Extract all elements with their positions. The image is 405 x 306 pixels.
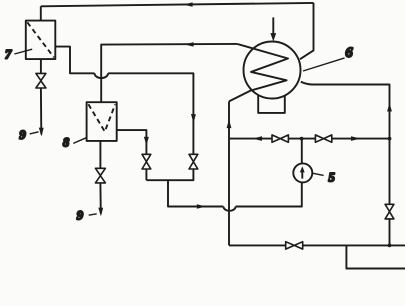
wire top return line (41, 3, 314, 6)
valve V2 (315, 135, 331, 142)
valve V1 (272, 135, 288, 142)
leader line of label 8 (73, 137, 87, 143)
leader line of left label 9 (30, 132, 39, 134)
arrow up on left vertical (227, 119, 232, 128)
pump 5 circle (293, 163, 312, 182)
wire box7 right outlet, down, right to valve M1 drop (55, 47, 94, 74)
valve below box 8 (95, 168, 105, 183)
svg-text:9: 9 (19, 127, 26, 142)
arrow down to 9 (right) (98, 208, 103, 217)
wire bottom step down and out right (346, 245, 405, 268)
wire bottom line y=245.4 (229, 244, 405, 246)
pump inner arrow (301, 172, 303, 179)
wire valve to outlet arrow 9 (40, 88, 42, 134)
inlet arrow line into exchanger top (272, 17, 274, 34)
wire pump top riser to valve line (301, 139, 303, 164)
wire left vertical from exchanger to bottom line (228, 101, 230, 245)
arrow on top line pointing left (183, 2, 193, 6)
valve M2 (142, 154, 151, 169)
wire collector drop at x=168 to y=206 run (168, 180, 223, 206)
valve below box 7 (36, 73, 46, 88)
svg-text:7: 7 (5, 47, 12, 62)
leader line of label 6 (303, 58, 345, 71)
wire hop over vertical at x=229.5 (223, 207, 235, 211)
wire box7 bottom to valve (40, 59, 42, 73)
arrow on y44 line pointing left (184, 42, 194, 46)
dashed diagonal of box 7 (27, 22, 54, 57)
arrow right on y206 run (197, 204, 206, 209)
wire box8 right outlet to valve M2 drop (117, 130, 147, 154)
arrow down to 9 (left) (39, 128, 44, 137)
valve V4 on right vertical (385, 204, 394, 219)
heat exchanger 6 circle (244, 42, 301, 99)
junction dot pump riser (300, 137, 304, 141)
arrow up on right vertical (387, 103, 392, 112)
wire box8 bottom to valve (99, 141, 101, 168)
arrow down on M1 drop (191, 114, 196, 123)
svg-text:5: 5 (328, 169, 335, 184)
wire M1 valve to collector line (146, 169, 193, 180)
svg-text:8: 8 (63, 135, 70, 150)
wire recirculation valve line y=138.6 (229, 138, 390, 140)
arrow left on valve line (252, 136, 262, 141)
svg-text:6: 6 (345, 45, 353, 61)
wire top stub into separator 7 (40, 6, 42, 20)
wire exchanger right outlet to right vertical (301, 82, 390, 205)
wire hop to corner x=193.4 and down to valve M1 (108, 73, 193, 154)
separator box 8 (87, 102, 117, 141)
zigzag coil through exchanger, exits to left vertical (229, 44, 288, 102)
valve M1 (189, 154, 198, 169)
exchanger pedestal (258, 95, 285, 113)
svg-text:9: 9 (77, 208, 84, 223)
wire return line y=44 with left arrow, ends turning down at x=101 (101, 44, 237, 102)
separator box 7 (26, 21, 56, 60)
wire M2 valve down to collector line (145, 169, 147, 180)
arrow down on M2 drop (144, 137, 149, 146)
leader line of label 5 (312, 173, 323, 175)
junction dot bottom right (388, 244, 392, 248)
leader line of right label 9 (89, 214, 97, 215)
wire valve to outlet arrow 9 (right) (99, 183, 101, 214)
arrow right on valve line (351, 136, 361, 141)
wire y206 run to pump riser (236, 182, 302, 206)
valve V3 on bottom line (286, 242, 303, 249)
wire V4 to bottom line (389, 219, 391, 246)
dashed V inside box 8 (88, 104, 115, 131)
leader line of label 7 (14, 49, 32, 54)
junction dot right vertical (388, 137, 392, 141)
wire hop over vertical at x=101 (95, 73, 109, 78)
wire top-right corner down into exchanger (300, 3, 314, 59)
